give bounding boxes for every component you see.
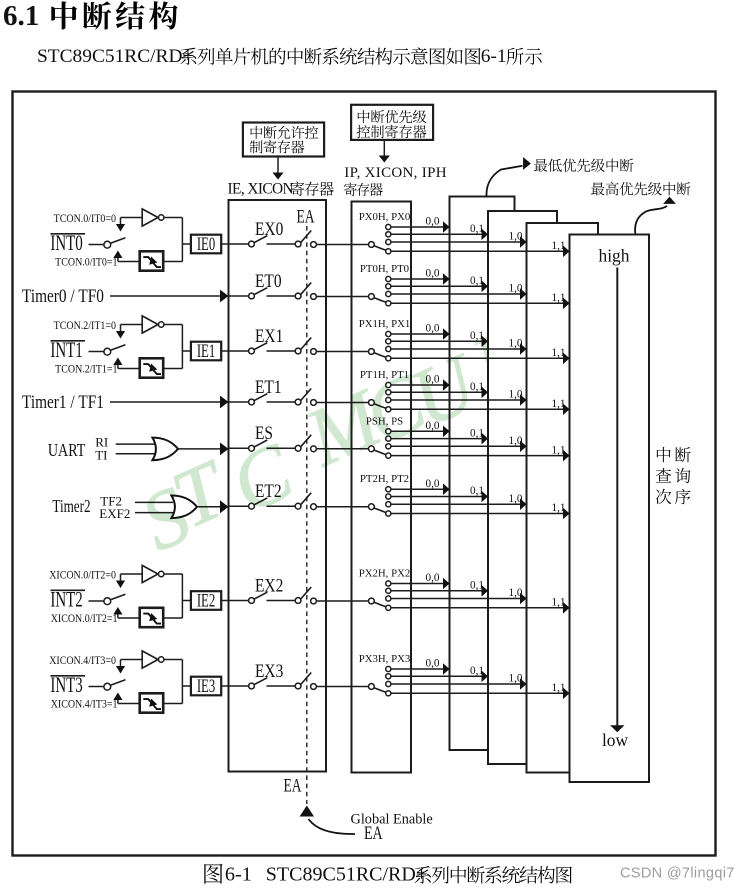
svg-text:ET1: ET1 [255,376,282,397]
wire priority 1,1 row EX2 [391,607,563,609]
arrowhead into IE block row ET0 [220,290,229,303]
label 0,0 row EX3 [426,658,440,670]
svg-text:1,1: 1,1 [552,444,566,456]
enable switch EX0 [249,236,268,247]
svg-text:0,1: 0,1 [470,580,484,592]
svg-text:1,0: 1,0 [509,493,523,505]
svg-text:TCON.2/IT1=1: TCON.2/IT1=1 [55,363,117,376]
EA switch row EX3 [295,673,316,690]
label low [602,730,629,750]
wire EX0 to EA switch [267,243,296,245]
svg-text:1,1: 1,1 [552,347,566,359]
wire row ET0 to IP selector [316,296,368,298]
label 1,1 row ES [552,444,566,456]
wire ET1 input [110,401,221,403]
wire priority 1,1 row ET0 [391,302,563,304]
svg-text:1,1: 1,1 [552,502,566,514]
svg-text:PX2H, PX2: PX2H, PX2 [359,568,411,580]
wire EX1 to EA switch [267,350,296,352]
wire EXF2 [135,512,173,514]
wire IE row EX1 [229,350,249,352]
wire priority 1,1 row ET1 [391,408,563,410]
svg-text:0,1: 0,1 [470,485,484,497]
label 中断查询次序 (interrupt polling order) [656,447,691,504]
label 最高优先级中断 [591,182,690,196]
priority selector PT1H, PT1 [369,382,391,412]
EA switch row EX1 [295,338,316,355]
trigger-select switch INT0 [104,238,126,248]
arrowhead into IE block row ET2 [220,500,229,513]
svg-text:IE2: IE2 [197,591,215,611]
input Timer2 TF2/EXF2 [52,493,130,520]
arrowhead 1,0 row ET0 [520,288,527,300]
wire priority 1,0 row ET1 [391,399,520,401]
wire IE row ET0 [229,295,249,297]
wire row EX2 to IP selector [316,600,368,602]
falling-edge detector for INT0 [118,251,163,270]
svg-text:IP, XICON, IPH: IP, XICON, IPH [344,165,447,181]
flag box IE3 [191,677,221,697]
IE, XICON register block [229,200,327,772]
wire merge to IE0 [164,218,191,262]
label EX3 [255,660,283,681]
wire TI [116,453,155,455]
label 0,0 row ET1 [426,374,440,386]
input pin INT0 (active-low) [50,231,85,256]
input UART RI/TI [48,434,108,462]
wire IE0 to IE block [221,243,228,245]
arrowhead 0,1 row EX2 [482,585,489,597]
priority block high/low (interrupt polling sequence) [570,235,650,783]
or-gate UART (RI|TI) [152,438,178,461]
svg-text:EX0: EX0 [255,218,283,239]
inverter for INT2 level trigger [121,565,164,582]
wire IE3 to IE block [221,685,228,687]
label EA (top) [296,205,314,227]
wire UART gate output [178,448,221,450]
label 1,0 row EX2 [509,587,523,599]
wire priority 0,0 row ET2 [391,488,443,490]
label PX1H, PX1 [359,318,411,330]
wire priority 1,0 row ES [391,445,520,447]
EA switch row EX2 [295,587,316,604]
arrowhead 0,1 row ES [482,433,489,445]
wire priority 0,1 row EX2 [391,590,482,592]
box 中断允许控制寄存器 (interrupt enable control register) [243,123,324,157]
wire priority 1,0 row EX2 [391,598,520,600]
label 最低优先级中断 [534,159,633,172]
wire IE1 to IE block [221,350,228,352]
priority block 0,1 [488,211,557,764]
wire priority 0,1 row EX1 [391,340,482,342]
svg-text:0,0: 0,0 [426,572,440,584]
arrowhead 0,0 row EX3 [443,663,450,675]
label 0,1 row EX0 [470,223,484,235]
wire priority 0,0 row EX3 [391,668,443,670]
label TCON.0/IT0=1 [55,256,117,269]
label XICON.4/IT3=0 [49,654,116,667]
label 1,0 row ET2 [509,493,523,505]
svg-text:EX2: EX2 [255,575,283,596]
or-gate Timer2 (TF2|EXF2) [171,496,197,519]
label IE, XICON寄存器 [228,180,334,197]
svg-text:XICON.4/IT3=1: XICON.4/IT3=1 [51,698,118,711]
svg-text:EA: EA [364,822,383,844]
page title 中断结构 [51,1,177,29]
label 0,0 row EX1 [426,323,440,335]
svg-text:STC89C51RC/RD+: STC89C51RC/RD+ [266,864,427,886]
label 0,0 row EX0 [426,216,440,228]
label 0,0 row ET0 [426,268,440,280]
arrowhead 0,0 row ET1 [443,379,450,391]
svg-text:Global Enable: Global Enable [351,812,433,828]
svg-text:6-1: 6-1 [225,864,252,886]
svg-text:PX0H, PX0: PX0H, PX0 [359,211,411,223]
arrowhead 0,1 row ET2 [482,491,489,503]
svg-text:0,0: 0,0 [426,323,440,335]
wire IE row EX2 [229,600,249,602]
contact arrow level-trigger (down) [116,574,125,588]
svg-text:low: low [602,730,629,750]
label 1,1 row EX0 [552,240,566,252]
arrowhead 0,1 row EX3 [482,671,489,683]
label PT2H, PT2 [360,473,409,485]
label TCON.2/IT1=0 [54,319,116,332]
arrow from priority box to IP register label [379,140,390,163]
inverter for INT1 level trigger [121,316,164,333]
label 1,0 row EX3 [509,673,523,685]
EA global-enable dashed line [306,226,308,804]
svg-text:1,1: 1,1 [552,292,566,304]
svg-text:0,1: 0,1 [470,381,484,393]
arrowhead 1,1 row ET0 [563,298,570,310]
wire EX2 to EA switch [267,600,296,602]
arrowhead 1,1 row EX2 [563,602,570,614]
wire priority 0,0 row ET1 [391,384,443,386]
svg-text:Timer1 / TF1: Timer1 / TF1 [22,392,104,413]
polling order arrow high to low [610,268,624,733]
svg-text:IE3: IE3 [197,677,215,697]
svg-text:TCON.2/IT1=0: TCON.2/IT1=0 [54,319,116,332]
arrowhead into IE block row ES [220,443,229,456]
arrowhead 1,1 row ET2 [563,508,570,520]
input pin INT2 (active-low) [50,588,85,613]
arrowhead 0,0 row ET2 [443,483,450,495]
svg-text:XICON.0/IT2=1: XICON.0/IT2=1 [51,612,118,625]
wire priority 1,1 row ES [391,455,563,457]
label 1,1 row ET0 [552,292,566,304]
priority selector PT2H, PT2 [369,487,391,516]
arrowhead 1,1 row ET1 [563,404,570,416]
wire IE row ES [229,447,249,449]
wire priority 1,0 row EX1 [391,348,520,350]
wire ET0 to EA switch [267,295,296,297]
label ET1 [255,376,282,397]
EA switch row ET2 [295,493,316,510]
wire INT1 to switch [89,351,104,353]
svg-text:TCON.0/IT0=1: TCON.0/IT0=1 [55,256,117,269]
label XICON.0/IT2=0 [49,569,116,582]
svg-text:1,0: 1,0 [509,435,523,447]
label 1,1 row EX3 [552,682,566,694]
label high [599,246,630,266]
svg-text:EX3: EX3 [255,660,283,681]
priority selector PT0H, PT0 [369,276,391,306]
wire priority 1,0 row ET0 [391,293,520,295]
svg-text:0,1: 0,1 [470,427,484,439]
contact arrow level-trigger (down) [116,325,125,339]
wire Timer2 gate output [197,506,221,508]
wire priority 0,1 row ET0 [391,285,482,287]
priority selector PX0H, PX0 [369,224,391,254]
label 1,0 row ET0 [509,283,523,295]
svg-text:EA: EA [284,774,302,796]
priority selector PX3H, PX3 [369,666,391,696]
enable switch ES [249,440,268,451]
label ES [255,423,273,444]
input pin INT1 (active-low) [50,338,85,363]
svg-text:INT2: INT2 [50,588,82,613]
label IP, XICON, IPH 寄存器 [344,165,447,196]
wire priority 0,0 row ES [391,430,443,432]
label 0,1 row EX1 [470,330,484,342]
label PX0H, PX0 [359,211,411,223]
wire INT2 to switch [89,600,104,602]
label ET0 [255,270,282,291]
label EA (bottom) [284,774,302,796]
contact arrow level-trigger (down) [116,218,125,232]
svg-text:1,1: 1,1 [552,398,566,410]
contact arrow edge-trigger (up) [113,607,122,618]
arrowhead 1,0 row EX1 [520,343,527,355]
priority selector PSH, PS [369,429,391,459]
svg-text:STC89C51RC/RD+: STC89C51RC/RD+ [37,46,193,67]
svg-text:1,0: 1,0 [509,389,523,401]
wire priority 0,1 row EX0 [391,233,482,235]
wire TF2 [135,501,173,503]
svg-text:IE0: IE0 [197,235,215,255]
label EX0 [255,218,283,239]
svg-text:high: high [599,246,630,266]
label XICON.4/IT3=1 [51,698,118,711]
svg-text:1,0: 1,0 [509,673,523,685]
wire priority 1,0 row EX3 [391,683,520,685]
wire ES to EA switch [267,447,296,449]
label 0,1 row ET2 [470,485,484,497]
arrowhead 0,1 row EX1 [482,336,489,348]
arrowhead 0,0 row EX0 [443,221,450,233]
wire priority 1,1 row EX1 [391,357,563,359]
svg-text:XICON.0/IT2=0: XICON.0/IT2=0 [49,569,116,582]
svg-text:0,0: 0,0 [426,478,440,490]
wire IE row ET2 [229,505,249,507]
inverter for INT3 level trigger [121,651,164,668]
label 0,0 row ET2 [426,478,440,490]
wire priority 0,1 row EX3 [391,675,482,677]
svg-text:TI: TI [95,448,107,463]
wire priority 1,0 row EX0 [391,241,520,243]
wire ET2 to EA switch [267,505,296,507]
box 中断优先级控制寄存器 (interrupt priority control register) [351,105,433,140]
arrow to lowest-priority label (curved) [486,157,530,196]
EA switch row ET1 [295,389,316,406]
svg-text:PX1H, PX1: PX1H, PX1 [359,318,411,330]
label PT1H, PT1 [360,369,409,381]
wire IE row EX0 [229,243,249,245]
wire merge to IE1 [164,325,191,369]
svg-text:0,0: 0,0 [426,268,440,280]
arrowhead 0,1 row EX0 [482,229,489,241]
arrowhead 1,1 row ES [563,450,570,462]
wire priority 0,1 row ET1 [391,391,482,393]
input Timer0 / TF0 [22,286,104,307]
IP, XICON, IPH register block [352,202,412,773]
arrow from enable box to IE register label [272,157,283,180]
wire EX3 to EA switch [267,685,296,687]
page title 6.1 [3,0,39,32]
label 0,1 row ES [470,427,484,439]
enable switch ET1 [249,394,268,405]
svg-text:0,1: 0,1 [470,275,484,287]
falling-edge detector for INT1 [118,358,163,377]
svg-text:Timer0 / TF0: Timer0 / TF0 [22,286,104,307]
label 1,0 row EX1 [509,338,523,350]
arrowhead 1,0 row ET1 [520,394,527,406]
wire row EX0 to IP selector [316,244,368,246]
label 0,1 row ET1 [470,381,484,393]
EA switch row ET0 [295,283,316,300]
figure caption 图6-1 [204,864,572,886]
label PX3H, PX3 [359,653,411,665]
arrowhead 1,1 row EX0 [563,246,570,258]
trigger-select switch INT2 [104,594,126,604]
wire priority 0,1 row ET2 [391,496,482,498]
svg-text:EA: EA [296,205,314,227]
label 0,1 row ET0 [470,275,484,287]
flag box IE0 [191,235,221,255]
svg-text:XICON.4/IT3=0: XICON.4/IT3=0 [49,654,116,667]
wire priority 0,0 row EX0 [391,226,443,228]
svg-text:1,0: 1,0 [509,338,523,350]
label XICON.0/IT2=1 [51,612,118,625]
label 1,1 row ET1 [552,398,566,410]
label 1,1 row ET2 [552,502,566,514]
wire IE2 to IE block [221,600,228,602]
svg-text:ES: ES [255,423,273,444]
label 0,1 row EX3 [470,665,484,677]
falling-edge detector for INT3 [118,693,163,712]
svg-text:CSDN @7lingqi7: CSDN @7lingqi7 [620,866,734,882]
svg-text:6-1: 6-1 [481,46,507,67]
svg-text:6.1: 6.1 [3,0,39,32]
wire priority 1,1 row EX0 [391,250,563,252]
svg-text:0,0: 0,0 [426,216,440,228]
CSDN watermark text [620,866,734,882]
svg-text:0,0: 0,0 [426,658,440,670]
svg-text:0,1: 0,1 [470,330,484,342]
svg-text:0,1: 0,1 [470,223,484,235]
label TCON.2/IT1=1 [55,363,117,376]
label PX2H, PX2 [359,568,411,580]
wire row EX1 to IP selector [316,351,368,353]
enable switch ET2 [249,498,268,509]
svg-text:EXF2: EXF2 [99,506,130,521]
EA switch row ES [295,435,316,452]
wire priority 1,1 row ET2 [391,513,563,515]
arrowhead 1,1 row EX1 [563,353,570,365]
arrowhead 1,0 row ET2 [520,498,527,510]
svg-text:1,1: 1,1 [552,597,566,609]
arrowhead 0,0 row EX2 [443,578,450,590]
wire merge to IE2 [164,574,191,618]
contact arrow edge-trigger (up) [113,251,122,262]
label TCON.0/IT0=0 [54,212,116,225]
svg-text:EX1: EX1 [255,325,283,346]
svg-text:PX3H, PX3: PX3H, PX3 [359,653,411,665]
svg-text:INT0: INT0 [50,231,82,256]
priority block 1,0 [527,223,599,773]
arrowhead 1,1 row EX3 [563,688,570,700]
label EX2 [255,575,283,596]
watermark STC MCU Li [128,301,557,568]
wire merge to IE3 [164,660,191,704]
label 0,0 row ES [426,420,440,432]
svg-text:IE1: IE1 [197,342,215,362]
svg-text:0,0: 0,0 [426,420,440,432]
wire RI [116,443,155,445]
enable switch ET0 [249,288,268,299]
arrowhead into IE block row ET1 [220,396,229,409]
svg-text:1,0: 1,0 [509,231,523,243]
label 1,1 row EX2 [552,597,566,609]
arrowhead 0,0 row ES [443,426,450,438]
input Timer1 / TF1 [22,392,104,413]
svg-text:0,1: 0,1 [470,665,484,677]
wire priority 0,1 row ES [391,438,482,440]
svg-text:0,0: 0,0 [426,374,440,386]
wire priority 1,1 row EX3 [391,692,563,694]
label PSH, PS [366,415,403,427]
arrowhead 0,1 row ET1 [482,387,489,399]
wire INT3 to switch [89,686,104,688]
arrowhead 1,0 row EX2 [520,593,527,605]
svg-text:1,1: 1,1 [552,240,566,252]
label ET2 [255,481,282,502]
label PT0H, PT0 [360,263,409,275]
global enable EA arrow (curved) [300,806,355,835]
label 0,0 row EX2 [426,572,440,584]
wire ET0 input [110,295,221,297]
falling-edge detector for INT2 [118,608,163,627]
label 0,1 row EX2 [470,580,484,592]
arrowhead 0,0 row ET0 [443,273,450,285]
contact arrow level-trigger (down) [116,660,125,674]
enable switch EX2 [249,592,268,603]
wire row ES to IP selector [316,448,368,450]
enable switch EX3 [249,678,268,689]
priority block 0,0 [450,197,515,751]
label 1,1 row EX1 [552,347,566,359]
wire IE row EX3 [229,685,249,687]
wire row ET1 to IP selector [316,402,368,404]
svg-text:INT3: INT3 [50,673,82,698]
wire row ET2 to IP selector [316,506,368,508]
wire INT0 to switch [89,244,104,246]
svg-text:INT1: INT1 [50,338,82,363]
EA switch row EX0 [295,231,316,248]
svg-text:Timer2: Timer2 [52,497,90,516]
inverter for INT0 level trigger [121,209,164,226]
